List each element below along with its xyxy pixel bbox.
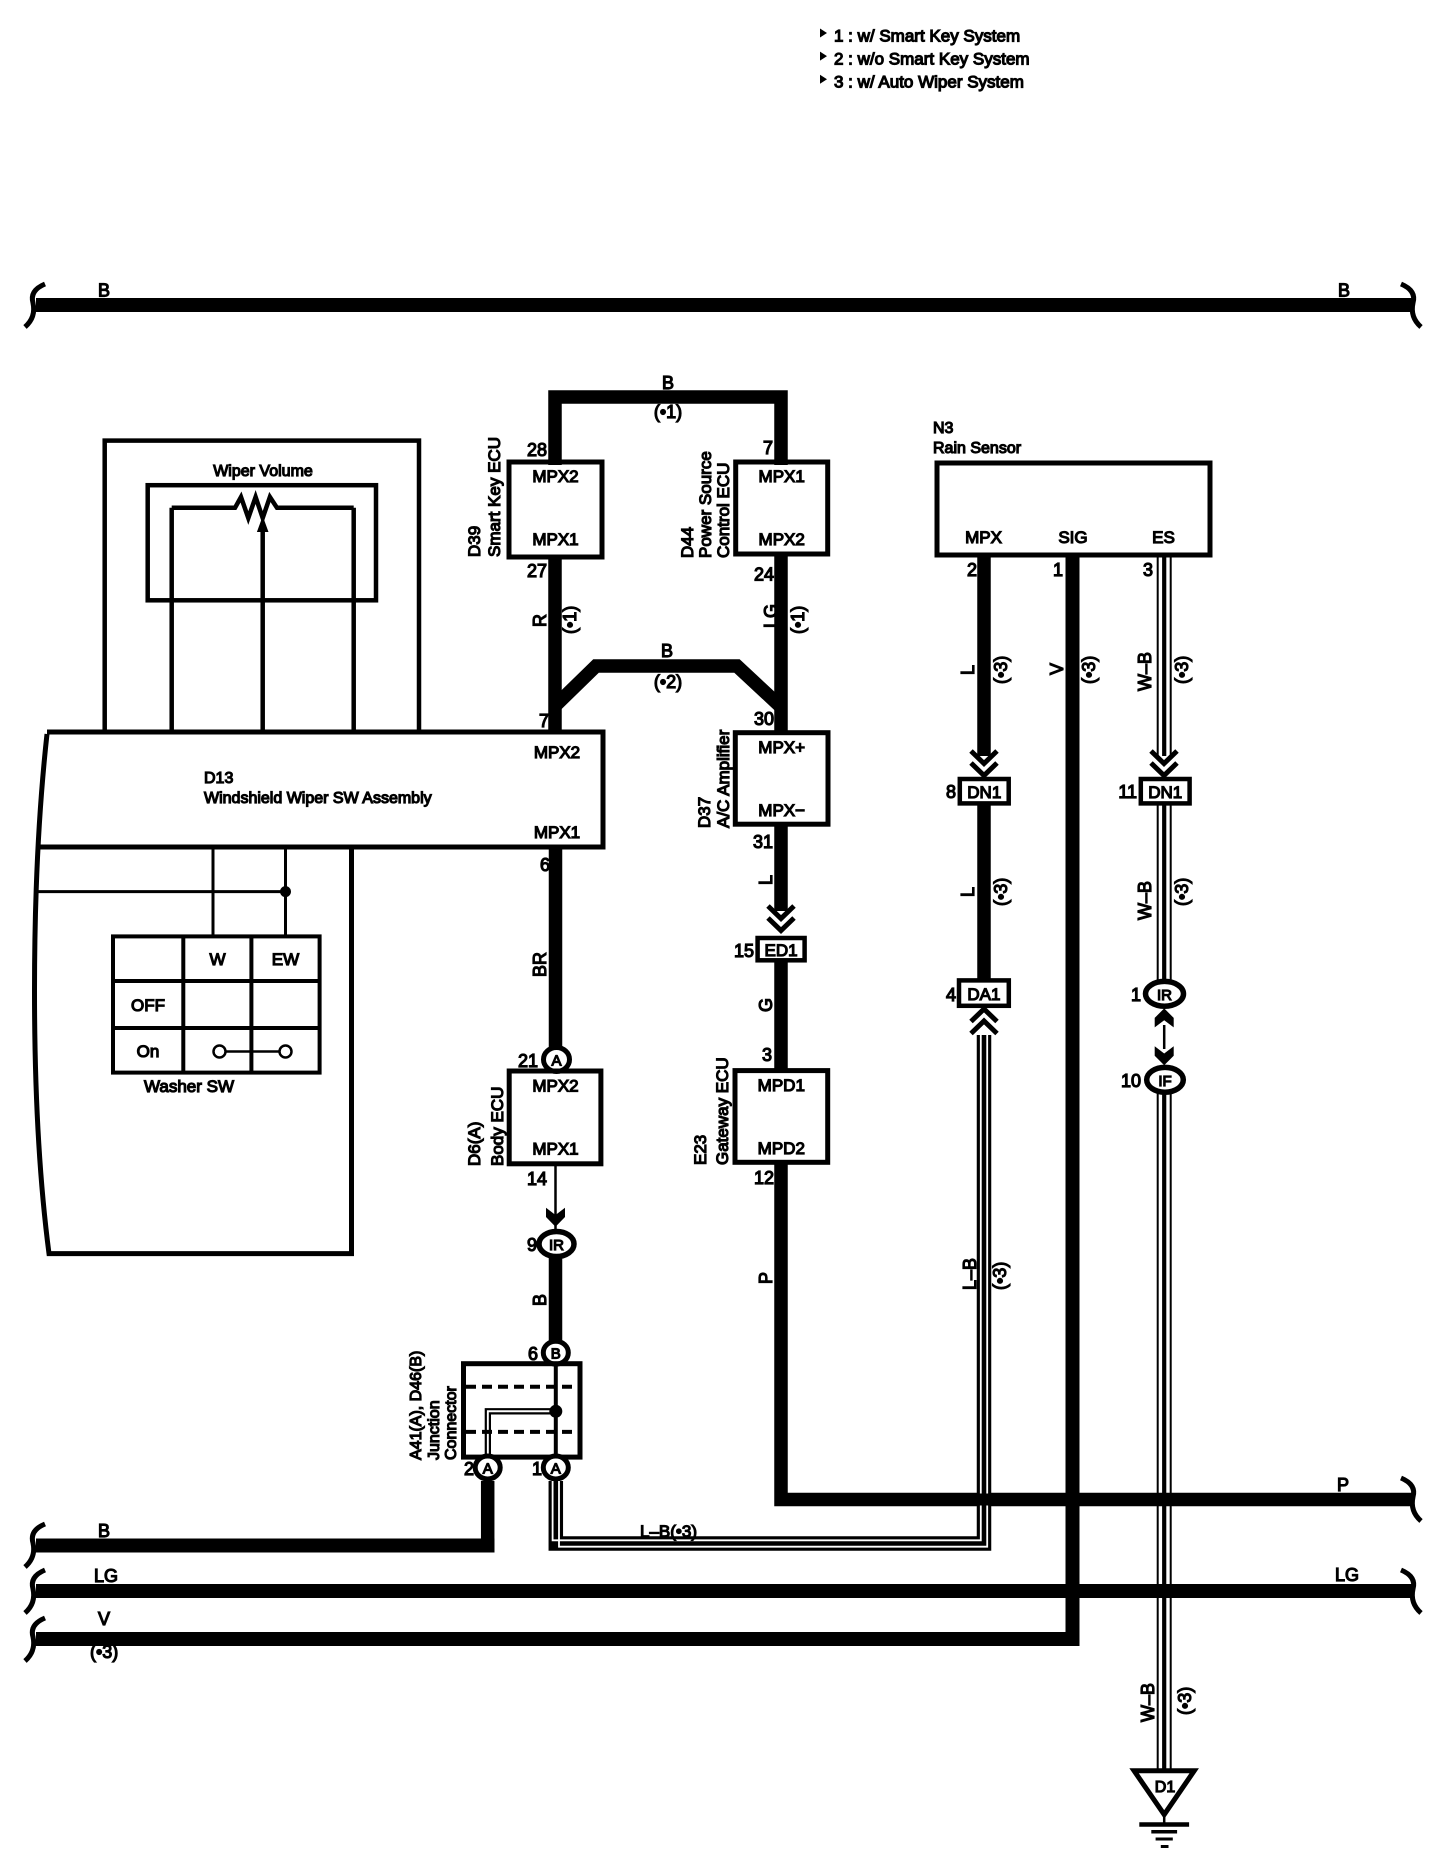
arrow into DN1 11 (double chevron down) (1151, 751, 1177, 776)
svg-text:MPX: MPX (965, 528, 1002, 547)
svg-text:1: 1 (1053, 560, 1063, 580)
svg-text:W–B: W–B (1135, 881, 1155, 920)
washer switch contact (214, 1046, 292, 1058)
svg-text:(•1): (•1) (788, 606, 808, 634)
connector circle A pin21 (518, 1048, 570, 1072)
svg-text:1: 1 (1131, 985, 1141, 1005)
break symbol left end of LG bus (25, 1570, 45, 1613)
svg-text:Windshield Wiper SW Assembly: Windshield Wiper SW Assembly (204, 790, 432, 807)
D13 Windshield Wiper SW Assembly box (35, 732, 604, 1254)
svg-text:On: On (137, 1042, 160, 1061)
connector DN1 pin 8 (946, 779, 1009, 803)
connector DA1 pin 4 (946, 980, 1009, 1005)
svg-text:(•1): (•1) (560, 606, 580, 634)
legend note 2: w/o Smart Key System (820, 50, 1030, 69)
break symbol left end of top B bus (25, 284, 45, 327)
potentiometer resistor (172, 497, 354, 518)
break symbol left end of V bus (25, 1618, 45, 1661)
svg-text:24: 24 (754, 565, 774, 585)
thin wire from D6 pin14 to IR (554, 1164, 557, 1231)
svg-text:W–B: W–B (1135, 652, 1155, 691)
svg-text:V: V (1047, 663, 1067, 675)
Wiper Volume outer box (105, 441, 419, 732)
svg-text:LG: LG (94, 1566, 118, 1586)
ECU D37 A/C Amplifier (695, 729, 828, 828)
svg-text:(•3): (•3) (1175, 1687, 1195, 1715)
svg-text:31: 31 (753, 832, 773, 852)
svg-text:(•3): (•3) (1079, 656, 1099, 684)
svg-text:10: 10 (1121, 1071, 1141, 1091)
solid chevron arrow up into IR (1155, 1008, 1174, 1027)
svg-text:7: 7 (539, 711, 549, 731)
svg-text:D44: D44 (678, 527, 697, 558)
svg-text:L: L (958, 665, 978, 675)
svg-text:A: A (551, 1053, 561, 1070)
svg-text:MPX1: MPX1 (534, 823, 580, 842)
svg-text:L: L (756, 875, 776, 885)
svg-text:MPX2: MPX2 (532, 467, 578, 486)
svg-text:A: A (551, 1461, 561, 1478)
svg-text:14: 14 (527, 1169, 547, 1189)
svg-text:B: B (661, 641, 673, 661)
LG bus (36, 1584, 1412, 1598)
svg-text:E23: E23 (691, 1135, 710, 1165)
svg-text:D39: D39 (465, 526, 484, 557)
svg-text:SIG: SIG (1058, 528, 1087, 547)
Washer SW table (113, 936, 320, 1072)
svg-text:28: 28 (527, 440, 547, 460)
break symbol right end of LG bus (1401, 1570, 1421, 1613)
connector oval IF pin 10 (1121, 1067, 1183, 1092)
svg-text:1 : w/ Smart Key System: 1 : w/ Smart Key System (834, 27, 1020, 46)
wiper arrowhead (257, 516, 269, 532)
svg-text:MPX−: MPX− (758, 801, 805, 820)
arrow into DA1 (double chevron up) (971, 1009, 997, 1034)
solid chevron arrow down into IF (1155, 1046, 1174, 1065)
svg-text:D1: D1 (1155, 1779, 1176, 1796)
svg-text:MPX2: MPX2 (532, 1077, 578, 1096)
svg-text:D6(A): D6(A) (465, 1122, 484, 1166)
svg-text:6: 6 (528, 1344, 538, 1364)
solid chevron arrow into IR (546, 1208, 565, 1227)
svg-text:(•3): (•3) (991, 878, 1011, 906)
svg-text:DA1: DA1 (967, 985, 1000, 1004)
connector circle A pin1 (532, 1456, 568, 1479)
svg-text:BR: BR (530, 952, 550, 977)
wire BR from D13 pin6 down to D6 pin21 (549, 847, 563, 1048)
ECU D6(A) Body ECU (465, 1071, 601, 1166)
svg-text:MPX+: MPX+ (758, 738, 805, 757)
legend note 1: w/ Smart Key System (820, 27, 1020, 46)
junction dot (280, 886, 291, 897)
svg-text:3: 3 (762, 1045, 772, 1065)
wire from junction pin2 down to B bus (481, 1481, 495, 1553)
svg-text:2: 2 (967, 560, 977, 580)
internal wiring: horizontal branch (35, 890, 286, 893)
svg-text:MPD2: MPD2 (758, 1139, 805, 1158)
svg-text:Rain Sensor: Rain Sensor (933, 440, 1022, 457)
svg-text:IF: IF (1158, 1073, 1171, 1090)
svg-text:MPX1: MPX1 (532, 530, 578, 549)
svg-text:D37: D37 (695, 797, 714, 828)
svg-text:Smart Key ECU: Smart Key ECU (485, 437, 504, 557)
svg-text:2 : w/o Smart Key System: 2 : w/o Smart Key System (834, 50, 1030, 69)
svg-text:MPD1: MPD1 (758, 1076, 805, 1095)
V bus joins SIG wire (36, 555, 1073, 1639)
svg-text:B: B (662, 373, 674, 393)
svg-text:(•3): (•3) (1172, 656, 1192, 684)
svg-text:(•3): (•3) (90, 1642, 118, 1662)
svg-text:27: 27 (527, 561, 547, 581)
wire B from IR down to junction connector pin6 (549, 1257, 563, 1342)
thin wire between arrows (1163, 1025, 1166, 1049)
ECU D44 Power Source Control ECU (678, 451, 828, 558)
svg-text:W: W (209, 950, 225, 969)
potentiometer left terminal wire (169, 508, 174, 732)
svg-text:ED1: ED1 (765, 941, 798, 960)
wire B (*2) branch between MPX2 wire and MPX+ wire (555, 666, 781, 707)
connector oval IR pin 1 (1131, 981, 1184, 1006)
break symbol right end of top B bus (1401, 284, 1421, 327)
P bus over shield crossing (1130, 1494, 1200, 1506)
svg-text:P: P (1337, 1475, 1349, 1495)
svg-text:DN1: DN1 (967, 783, 1001, 802)
svg-text:Wiper Volume: Wiper Volume (213, 463, 313, 480)
svg-text:Gateway ECU: Gateway ECU (713, 1057, 732, 1165)
wire LG (*1) from D44 pin24 down to D37 MPX+ pin30 (774, 554, 788, 733)
wire: top B bus (36, 298, 1412, 312)
svg-text:(•2): (•2) (654, 672, 682, 692)
internal wiring: vertical to washer table col EW (284, 847, 287, 936)
svg-text:MPX2: MPX2 (534, 743, 580, 762)
svg-text:G: G (756, 998, 776, 1012)
svg-text:Junction: Junction (426, 1400, 443, 1460)
ECU D39 Smart Key ECU (465, 437, 602, 557)
svg-text:3: 3 (1143, 560, 1153, 580)
svg-text:4: 4 (946, 985, 956, 1005)
Rain Sensor N3 (933, 420, 1210, 555)
shielded wire W-B from IF down to ground D1 (1158, 1092, 1171, 1771)
svg-text:11: 11 (1118, 782, 1137, 802)
junction connector A41(A) D46(B) (408, 1351, 580, 1460)
svg-text:Power Source: Power Source (696, 451, 715, 558)
svg-text:W–B: W–B (1138, 1683, 1158, 1722)
connector oval IR pin 9 (527, 1232, 574, 1257)
svg-text:(•1): (•1) (654, 402, 682, 422)
svg-text:6: 6 (540, 855, 550, 875)
wire: P bus over L-B crossing (950, 1494, 1020, 1506)
Wiper Volume inner box (148, 485, 376, 600)
potentiometer wiper arrow wire (260, 528, 265, 732)
svg-text:2: 2 (464, 1459, 474, 1479)
connector circle B pin6 (528, 1341, 568, 1364)
svg-text:8: 8 (946, 782, 956, 802)
svg-text:A: A (483, 1461, 493, 1478)
svg-text:P: P (756, 1272, 776, 1284)
svg-text:7: 7 (763, 438, 773, 458)
svg-text:B: B (98, 281, 110, 301)
svg-text:B: B (530, 1294, 550, 1306)
shielded wire W-B from N3 ES down to DN1 (1158, 555, 1171, 756)
svg-text:DN1: DN1 (1148, 783, 1182, 802)
svg-text:EW: EW (272, 950, 299, 969)
svg-text:MPX1: MPX1 (532, 1140, 578, 1159)
connector DN1 pin 11 (1118, 779, 1189, 803)
arrow into DN1 (double chevron down) (971, 751, 997, 776)
ECU E23 Gateway ECU (691, 1057, 828, 1165)
svg-text:V: V (98, 1609, 110, 1629)
svg-text:Washer SW: Washer SW (144, 1077, 234, 1096)
svg-text:1: 1 (532, 1459, 542, 1479)
wire L (*3) from N3 MPX down to DN1 (977, 555, 991, 756)
svg-text:LG: LG (761, 604, 781, 628)
svg-text:B: B (551, 1346, 561, 1363)
svg-text:(•3): (•3) (991, 656, 1011, 684)
svg-text:A41(A), D46(B): A41(A), D46(B) (408, 1351, 425, 1460)
svg-text:MPX1: MPX1 (759, 467, 805, 486)
internal wiring of D13: vertical from MPX cell to washer table col W (212, 847, 215, 936)
bottom B bus (36, 1539, 495, 1553)
LG bus redrawn over shield crossing (1130, 1585, 1200, 1597)
L-B shielded wire from junction pin1 right and up to DA1 (553, 1035, 988, 1547)
svg-text:15: 15 (734, 941, 754, 961)
svg-text:L: L (958, 887, 978, 897)
svg-text:30: 30 (754, 709, 774, 729)
arrow into ED1 (double chevron down) (768, 906, 794, 931)
svg-text:12: 12 (754, 1168, 774, 1188)
svg-text:L–B(•3): L–B(•3) (640, 1522, 697, 1541)
svg-text:A/C Amplifier: A/C Amplifier (714, 729, 733, 828)
svg-text:Control ECU: Control ECU (714, 463, 733, 558)
svg-text:N3: N3 (933, 420, 954, 437)
wire R (*1) from D39 pin27 down to D13 MPX2 pin7 (548, 557, 562, 732)
svg-text:ES: ES (1152, 528, 1175, 547)
wire L from D37 pin31 to ED1 (774, 824, 788, 911)
svg-text:MPX2: MPX2 (759, 530, 805, 549)
connector ED1 pin 15 (734, 938, 805, 961)
svg-text:(•3): (•3) (1172, 878, 1192, 906)
svg-text:L–B: L–B (960, 1258, 980, 1290)
wire L (*3) from DN1 to DA1 (977, 803, 991, 980)
svg-text:R: R (530, 614, 550, 627)
ground D1 (1134, 1771, 1194, 1847)
svg-text:Connector: Connector (443, 1386, 460, 1460)
connector circle A pin2 (464, 1456, 500, 1479)
svg-text:3 : w/ Auto Wiper System: 3 : w/ Auto Wiper System (834, 73, 1024, 92)
svg-text:(•3): (•3) (990, 1262, 1010, 1290)
svg-text:IR: IR (549, 1237, 564, 1254)
svg-text:21: 21 (518, 1051, 538, 1071)
svg-text:D13: D13 (204, 770, 233, 787)
legend note 3: w/ Auto Wiper System (820, 73, 1024, 92)
svg-text:Body ECU: Body ECU (488, 1087, 507, 1166)
break symbol left end of bottom B bus (25, 1524, 45, 1567)
wire P from E23 pin12 down and right to P bus (781, 1162, 1412, 1499)
svg-text:OFF: OFF (131, 996, 165, 1015)
potentiometer right terminal wire (351, 508, 356, 732)
svg-text:LG: LG (1335, 1565, 1359, 1585)
svg-text:IR: IR (1157, 987, 1172, 1004)
shielded wire W-B from DN1 to IR (1158, 803, 1171, 983)
break symbol right end of P bus (1401, 1478, 1421, 1521)
svg-text:9: 9 (527, 1235, 537, 1255)
svg-text:B: B (98, 1521, 110, 1541)
wire: B (*1) loop between D39 pin28 and D44 pin7 (555, 397, 781, 465)
svg-text:B: B (1338, 281, 1350, 301)
wire G from ED1 to E23 MPD1 pin3 (774, 960, 788, 1070)
